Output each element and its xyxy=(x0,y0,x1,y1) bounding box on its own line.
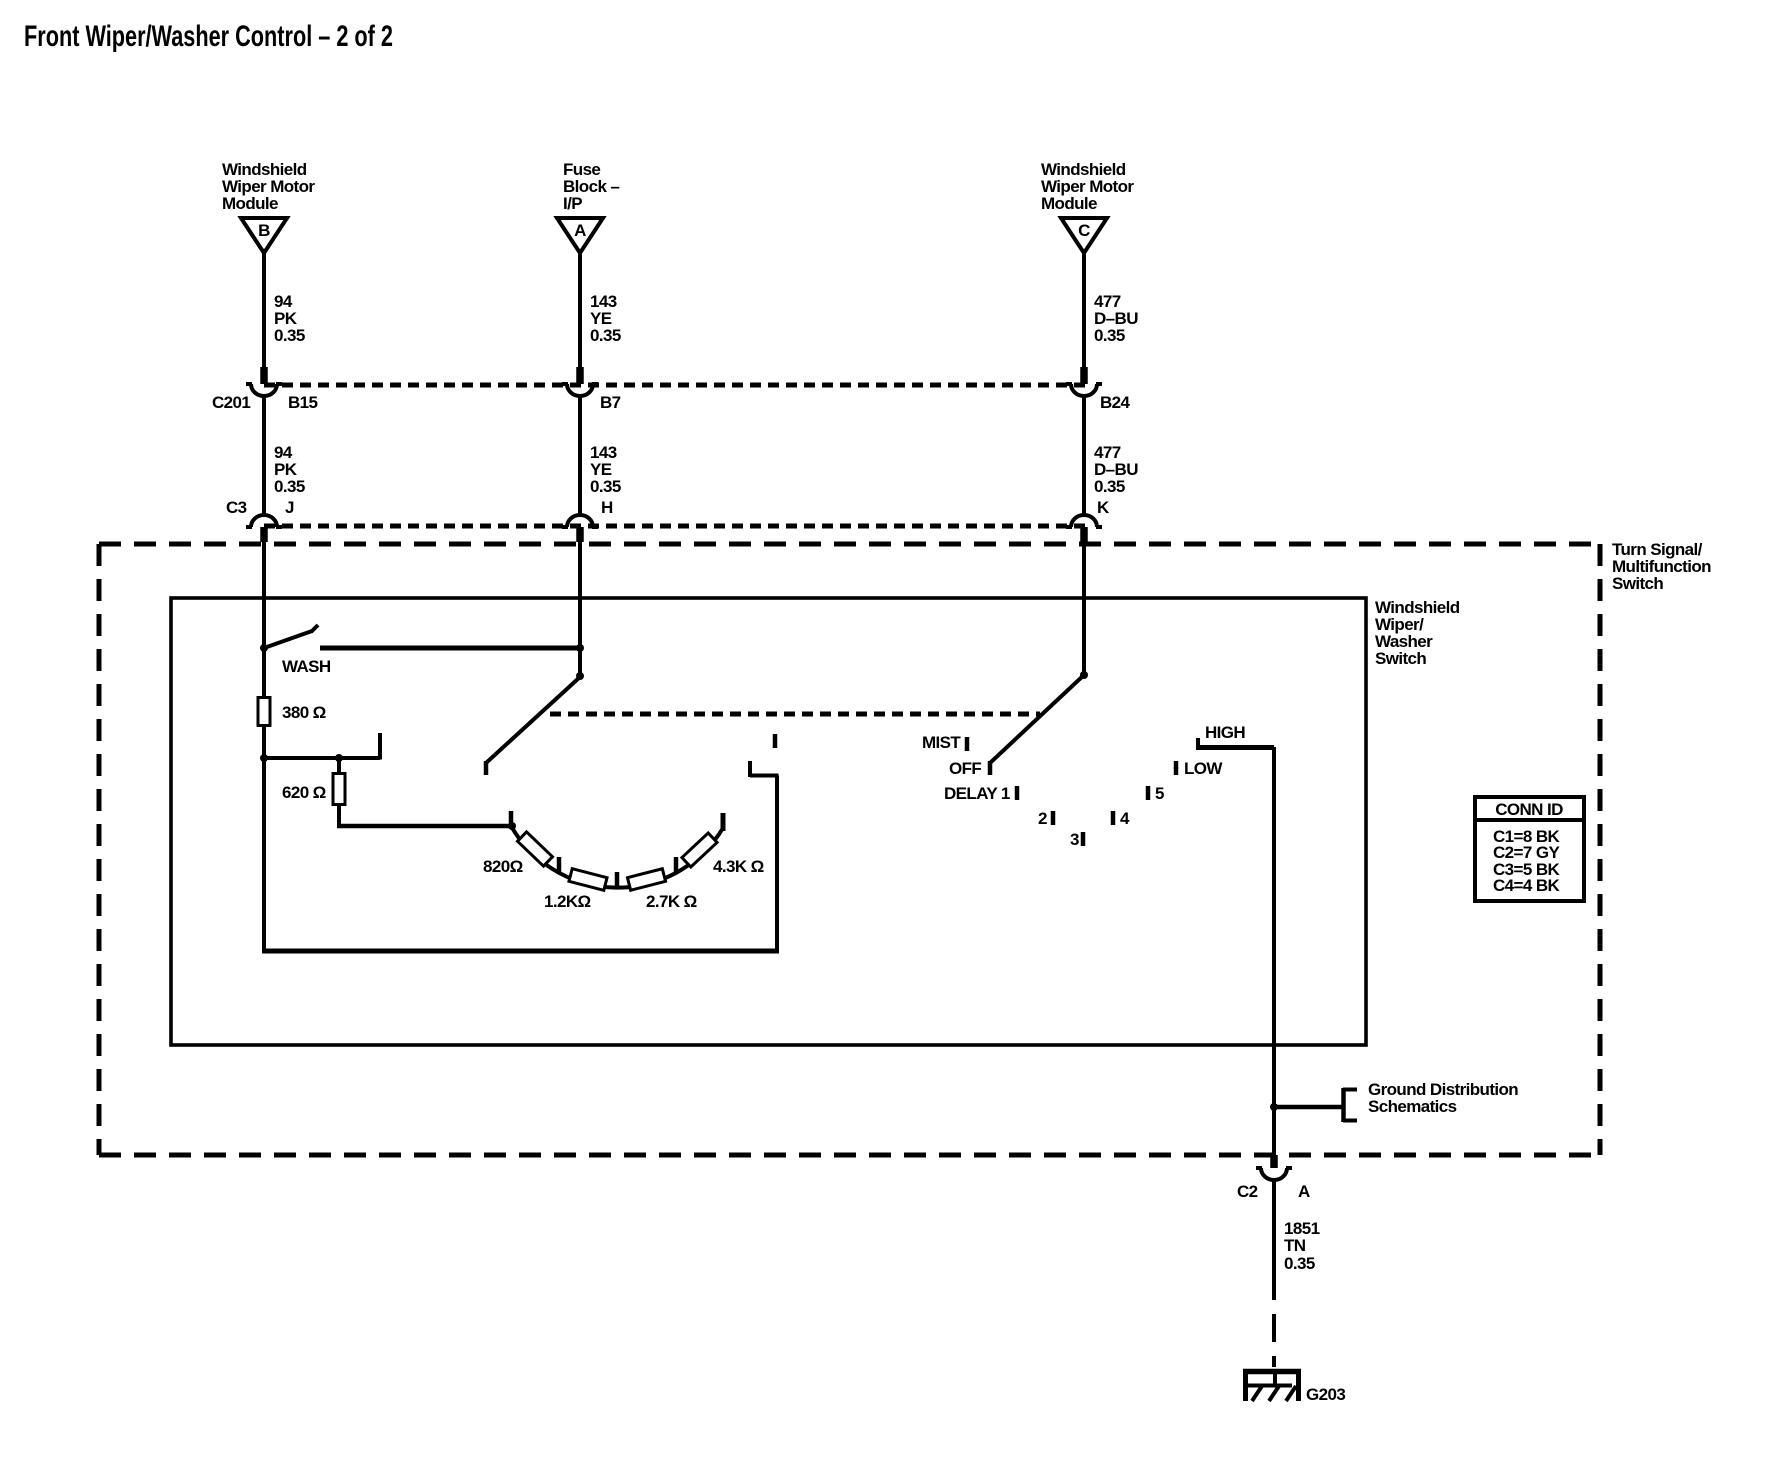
svg-text:TN: TN xyxy=(1284,1236,1306,1255)
connector triangle B xyxy=(241,218,287,253)
contact tick MIST xyxy=(965,737,970,751)
svg-text:I/P: I/P xyxy=(563,194,582,213)
svg-text:B15: B15 xyxy=(288,393,318,412)
connector C201 dashed interface line xyxy=(264,383,1085,388)
label wire 143 YE 0.35 (lower) xyxy=(590,443,621,496)
resistor 4.3K ohm (on arc) xyxy=(682,833,717,867)
label 3 xyxy=(1070,830,1079,849)
wire tap to ground distribution reference (thick) xyxy=(1274,1105,1343,1110)
switch blade A (to OFF position) xyxy=(486,677,580,775)
svg-text:Schematics: Schematics xyxy=(1368,1097,1457,1116)
svg-text:Module: Module xyxy=(222,194,278,213)
wire A into switch (down to blade pivot) xyxy=(578,541,582,677)
contact tick 3 xyxy=(1081,832,1086,846)
label wire 477 D-BU 0.35 (lower) xyxy=(1094,443,1138,496)
wire B return path (bottom U) xyxy=(262,758,779,953)
label Windshield Wiper Motor Module (right) xyxy=(1041,160,1134,213)
svg-text:A: A xyxy=(1298,1182,1310,1201)
label 4 xyxy=(1120,809,1130,828)
pin label A xyxy=(1298,1182,1310,1201)
pin label H xyxy=(601,498,613,517)
label C2=7 GY xyxy=(1493,843,1560,862)
svg-text:380 Ω: 380 Ω xyxy=(282,703,326,722)
label Ground Distribution Schematics xyxy=(1368,1080,1518,1116)
svg-text:C: C xyxy=(1078,221,1090,240)
off-page bracket Ground Distribution Schematics xyxy=(1343,1088,1357,1122)
value label 4.3K ohm xyxy=(713,857,764,876)
wire B into switch (down to WASH node) xyxy=(262,541,266,649)
node junction A / WASH xyxy=(576,644,584,652)
svg-text:4: 4 xyxy=(1120,809,1130,828)
node 620 ohm tap xyxy=(335,754,343,762)
title Front Wiper/Washer Control - 2 of 2 xyxy=(24,20,393,53)
svg-text:Module: Module xyxy=(1041,194,1097,213)
svg-text:0.35: 0.35 xyxy=(590,326,621,345)
mechanical coupling dashed link xyxy=(550,712,1040,717)
contact tick DELAY 1 xyxy=(1015,786,1020,800)
label 2 xyxy=(1038,809,1047,828)
wire 477 D-BU from C to C201 xyxy=(1082,253,1086,369)
pin label B24 xyxy=(1100,393,1131,412)
node ground distribution tap xyxy=(1270,1103,1278,1111)
pin label B15 xyxy=(288,393,318,412)
wire 1851 TN to ground xyxy=(1272,1180,1276,1367)
wire node to MIST stub xyxy=(264,756,380,760)
svg-text:WASH: WASH xyxy=(282,657,331,676)
connector C201 pin B15 xyxy=(246,367,282,396)
contact tick 5 xyxy=(1146,786,1151,800)
wire 620 ohm to delay arc (down then right, thick) xyxy=(337,803,512,826)
value label 620 ohm xyxy=(282,783,326,802)
svg-text:CONN ID: CONN ID xyxy=(1495,800,1563,819)
value label 820 ohm xyxy=(483,857,523,876)
svg-text:0.35: 0.35 xyxy=(1284,1254,1315,1273)
resistor 2.7K ohm (on arc) xyxy=(627,869,665,890)
label G203 xyxy=(1306,1385,1345,1404)
wire tap down to 620 ohm xyxy=(337,758,341,774)
label OFF xyxy=(949,759,981,778)
arc contact tick (left end) xyxy=(509,811,514,826)
connector triangle C xyxy=(1061,218,1107,253)
connector C3 pin J xyxy=(246,515,282,542)
svg-text:820Ω: 820Ω xyxy=(483,857,523,876)
svg-text:2.7K Ω: 2.7K Ω xyxy=(646,892,697,911)
svg-text:C3: C3 xyxy=(226,498,247,517)
arc contact tick 4 xyxy=(674,857,679,872)
svg-text:B: B xyxy=(258,221,270,240)
contact HIGH (tick and thick lead) xyxy=(1196,738,1274,748)
svg-text:620 Ω: 620 Ω xyxy=(282,783,326,802)
svg-text:C201: C201 xyxy=(212,393,250,412)
wire WASH contact to wire A (thick) xyxy=(320,646,582,651)
wire 94 PK from B to C201 xyxy=(262,253,266,369)
wire C into switch (down to blade pivot) xyxy=(1082,541,1086,676)
wire HIGH output down to C2 xyxy=(1272,747,1276,1156)
svg-text:K: K xyxy=(1097,498,1110,517)
pin label K xyxy=(1097,498,1110,517)
label CONN ID xyxy=(1495,800,1563,819)
node blade A pivot xyxy=(576,672,584,680)
svg-text:2: 2 xyxy=(1038,809,1047,828)
label Fuse Block - I/P xyxy=(563,160,619,213)
svg-text:C2: C2 xyxy=(1237,1182,1258,1201)
svg-text:DELAY 1: DELAY 1 xyxy=(944,784,1010,803)
label 5 xyxy=(1155,784,1164,803)
resistor 1.2K ohm (on arc) xyxy=(569,869,607,891)
svg-text:G203: G203 xyxy=(1306,1385,1345,1404)
wire 94 PK from C201 to C3 xyxy=(262,396,266,516)
ground symbol G203 xyxy=(1243,1369,1301,1401)
svg-text:0.35: 0.35 xyxy=(1094,326,1125,345)
value label 1.2K ohm xyxy=(544,892,591,911)
svg-text:H: H xyxy=(601,498,613,517)
delay resistor arc track xyxy=(511,826,723,888)
contact tick (right bank, above return stub) xyxy=(773,734,778,748)
pin label B7 xyxy=(600,393,621,412)
label MIST xyxy=(922,733,961,752)
arc contact tick 3 xyxy=(615,872,620,887)
svg-text:HIGH: HIGH xyxy=(1205,723,1245,742)
contact tick LOW xyxy=(1174,761,1179,775)
wire 143 YE from C201 to C3 xyxy=(578,396,582,516)
svg-text:5: 5 xyxy=(1155,784,1164,803)
arc contact tick (right end) xyxy=(721,813,726,831)
label DELAY 1 xyxy=(944,784,1010,803)
svg-text:A: A xyxy=(574,221,586,240)
contact tick 4 xyxy=(1111,811,1116,825)
svg-text:Front Wiper/Washer Control – 2: Front Wiper/Washer Control – 2 of 2 xyxy=(24,20,393,53)
svg-text:B7: B7 xyxy=(600,393,621,412)
node delay arc start xyxy=(508,822,516,830)
label C3=5 BK xyxy=(1493,860,1561,879)
connector C201 pin B7 xyxy=(562,367,598,396)
arc contact tick 2 xyxy=(557,857,562,872)
label Windshield Wiper Motor Module (left) xyxy=(222,160,315,213)
label C4=4 BK xyxy=(1493,876,1561,895)
svg-text:LOW: LOW xyxy=(1184,759,1223,778)
wire WASH node to 380 ohm xyxy=(262,648,266,700)
pin label J xyxy=(285,498,294,517)
connector C3 dashed interface line xyxy=(264,524,1085,529)
svg-text:C4=4 BK: C4=4 BK xyxy=(1493,876,1561,895)
svg-text:MIST: MIST xyxy=(922,733,961,752)
connector C3 pin K xyxy=(1066,515,1102,542)
svg-text:Switch: Switch xyxy=(1375,649,1426,668)
resistor 820 ohm (on arc) xyxy=(518,832,553,866)
switch blade C (to OFF position) xyxy=(990,675,1084,775)
value label 380 ohm xyxy=(282,703,326,722)
contact stub (left bank MIST position) xyxy=(378,733,382,760)
connector C201 pin B24 xyxy=(1066,367,1102,396)
svg-text:0.35: 0.35 xyxy=(1094,477,1125,496)
svg-text:3: 3 xyxy=(1070,830,1079,849)
label wire 1851 TN 0.35 xyxy=(1284,1219,1320,1273)
contact tick 2 xyxy=(1051,811,1056,825)
label WASH xyxy=(282,657,331,676)
svg-text:0.35: 0.35 xyxy=(590,477,621,496)
svg-text:Switch: Switch xyxy=(1612,574,1663,593)
switch WASH blade xyxy=(264,625,318,648)
wire 143 YE from A to C201 xyxy=(578,253,582,369)
dashed box Turn Signal / Multifunction Switch xyxy=(99,544,1600,1155)
label HIGH xyxy=(1205,723,1245,742)
label wire 143 YE 0.35 (upper) xyxy=(590,292,621,345)
resistor 620 ohm xyxy=(333,774,345,805)
connector C3 pin H xyxy=(562,515,598,542)
wire 477 D-BU from C201 to C3 xyxy=(1082,396,1086,516)
label wire 477 D-BU 0.35 (upper) xyxy=(1094,292,1138,345)
label Turn Signal/Multifunction Switch xyxy=(1612,540,1711,593)
connector C2 pin A xyxy=(1256,1155,1292,1180)
label C201 xyxy=(212,393,250,412)
value label 2.7K ohm xyxy=(646,892,697,911)
node B lower junction xyxy=(260,754,268,762)
node WASH pivot xyxy=(260,644,268,652)
node blade C pivot xyxy=(1080,671,1088,679)
svg-text:0.35: 0.35 xyxy=(274,477,305,496)
label C2 xyxy=(1237,1182,1258,1201)
svg-text:OFF: OFF xyxy=(949,759,981,778)
label C3 xyxy=(226,498,247,517)
resistor 380 ohm xyxy=(258,698,270,726)
svg-text:J: J xyxy=(285,498,294,517)
wire B from 380 ohm to lower node xyxy=(262,725,266,760)
label C1=8 BK xyxy=(1493,827,1561,846)
label wire 94 PK 0.35 (upper) xyxy=(274,292,305,345)
svg-text:B24: B24 xyxy=(1100,393,1131,412)
svg-text:0.35: 0.35 xyxy=(274,326,305,345)
label LOW xyxy=(1184,759,1223,778)
solid box Windshield Wiper/Washer Switch xyxy=(171,598,1366,1045)
svg-text:1.2KΩ: 1.2KΩ xyxy=(544,892,591,911)
svg-text:4.3K Ω: 4.3K Ω xyxy=(713,857,764,876)
CONN ID table xyxy=(1475,797,1584,901)
label wire 94 PK 0.35 (lower) xyxy=(274,443,305,496)
connector triangle A xyxy=(557,218,603,253)
label Windshield Wiper/Washer Switch xyxy=(1375,598,1460,668)
